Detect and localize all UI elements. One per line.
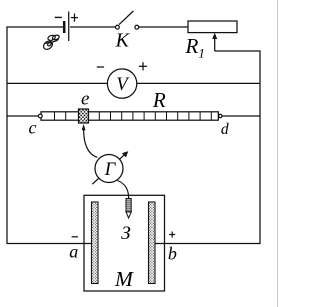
svg-text:M: M	[114, 267, 134, 291]
svg-text:e: e	[81, 88, 89, 109]
svg-text:V: V	[116, 75, 130, 95]
svg-text:c: c	[29, 118, 37, 138]
svg-text:З: З	[121, 223, 130, 244]
svg-text:R1: R1	[185, 34, 205, 61]
svg-text:b: b	[168, 244, 177, 264]
svg-text:Г: Г	[104, 160, 117, 180]
svg-text:d: d	[221, 121, 229, 138]
svg-text:R: R	[152, 88, 166, 112]
svg-text:a: a	[69, 242, 78, 262]
svg-text:K: K	[115, 30, 131, 52]
